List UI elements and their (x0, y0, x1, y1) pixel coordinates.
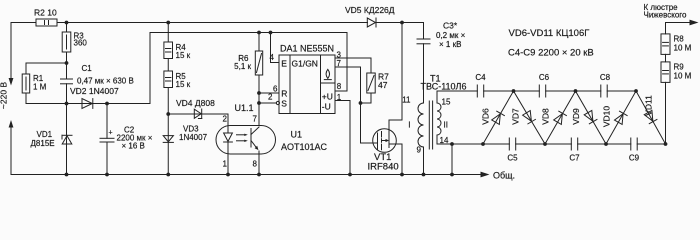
svg-text:8: 8 (253, 160, 258, 169)
svg-text:VD11: VD11 (644, 95, 654, 116)
svg-text:-U: -U (322, 101, 331, 111)
svg-text:Чижевского: Чижевского (644, 11, 688, 20)
svg-text:VD8: VD8 (541, 108, 551, 125)
svg-text:~220 В: ~220 В (0, 82, 9, 110)
svg-text:G1/GN: G1/GN (292, 58, 318, 68)
svg-text:S: S (281, 98, 287, 108)
svg-text:3: 3 (337, 50, 342, 59)
svg-text:2: 2 (268, 93, 273, 102)
svg-text:1: 1 (223, 160, 228, 169)
svg-text:VD6: VD6 (481, 108, 491, 125)
svg-text:+: + (109, 130, 113, 137)
svg-text:R2 10: R2 10 (34, 8, 57, 18)
svg-text:C1: C1 (82, 64, 93, 73)
svg-text:С4-С9 2200 × 20 кВ: С4-С9 2200 × 20 кВ (508, 48, 594, 59)
svg-text:47: 47 (378, 80, 388, 90)
svg-text:I: I (408, 121, 410, 130)
svg-text:U1: U1 (291, 129, 303, 139)
svg-text:C9: C9 (629, 154, 640, 163)
svg-text:VD1: VD1 (37, 130, 53, 139)
svg-text:1 М: 1 М (33, 83, 47, 92)
svg-text:5,1 к: 5,1 к (234, 62, 251, 71)
svg-text:11: 11 (402, 96, 411, 105)
svg-text:15: 15 (442, 98, 451, 107)
svg-text:R: R (281, 88, 287, 98)
svg-text:1: 1 (337, 93, 342, 102)
svg-text:IRF840: IRF840 (368, 162, 399, 173)
svg-text:E: E (281, 58, 287, 68)
svg-text:VD6-VD11 КЦ106Г: VD6-VD11 КЦ106Г (509, 28, 590, 39)
svg-text:C6: C6 (539, 73, 550, 82)
svg-text:Общ.: Общ. (493, 171, 515, 181)
svg-text:VD9: VD9 (571, 108, 581, 125)
svg-text:C7: C7 (569, 154, 580, 163)
svg-text:15 к: 15 к (176, 51, 191, 60)
svg-text:VD5 КД226Д: VD5 КД226Д (345, 5, 395, 15)
svg-text:6: 6 (273, 85, 278, 94)
svg-text:7: 7 (337, 59, 342, 68)
svg-text:VD4 Д808: VD4 Д808 (176, 98, 215, 108)
svg-text:0,47 мк × 630 В: 0,47 мк × 630 В (77, 77, 134, 86)
svg-text:VD7: VD7 (511, 108, 521, 125)
svg-text:1N4007: 1N4007 (179, 133, 208, 142)
svg-text:ТВС-110Л6: ТВС-110Л6 (421, 82, 467, 92)
svg-text:VD2 1N4007: VD2 1N4007 (70, 86, 119, 96)
svg-text:× 16 В: × 16 В (122, 142, 145, 151)
svg-text:R8: R8 (674, 35, 685, 44)
svg-text:2: 2 (223, 115, 228, 124)
svg-text:C4: C4 (475, 73, 486, 82)
svg-text:VD10: VD10 (602, 106, 612, 128)
svg-text:C3*: C3* (443, 21, 458, 31)
svg-text:R9: R9 (674, 63, 685, 72)
svg-text:DA1 NE555N: DA1 NE555N (280, 43, 334, 53)
svg-text:10 М: 10 М (674, 44, 692, 53)
svg-text:Д815Е: Д815Е (31, 139, 55, 148)
svg-text:C8: C8 (600, 73, 611, 82)
svg-text:+U: +U (322, 91, 333, 101)
svg-text:360: 360 (74, 39, 88, 48)
svg-text:C5: C5 (507, 154, 518, 163)
svg-text:4: 4 (270, 53, 275, 62)
svg-text:10 М: 10 М (674, 72, 692, 81)
svg-text:× 1 кВ: × 1 кВ (439, 40, 461, 49)
svg-text:AOT101AC: AOT101AC (281, 142, 328, 152)
svg-text:15 к: 15 к (176, 80, 191, 89)
svg-text:0,2 мк ×: 0,2 мк × (436, 31, 466, 40)
svg-text:U1.1: U1.1 (235, 103, 254, 113)
svg-text:9: 9 (417, 146, 422, 155)
svg-text:II: II (444, 121, 448, 130)
svg-text:8: 8 (337, 82, 342, 91)
svg-text:7: 7 (253, 115, 258, 124)
